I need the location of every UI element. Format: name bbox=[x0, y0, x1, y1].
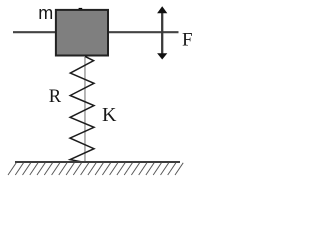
wire right line to F bbox=[108, 31, 179, 33]
force arrow F top head bbox=[157, 6, 167, 13]
svg-text:F: F bbox=[182, 29, 193, 50]
svg-text:m: m bbox=[38, 3, 53, 23]
force arrow F shaft bbox=[161, 12, 163, 54]
rod top notch bbox=[79, 8, 83, 10]
force arrow F bottom head bbox=[157, 53, 167, 59]
wire left support line bbox=[13, 31, 57, 33]
ground hatching bbox=[8, 163, 183, 175]
piston rod bbox=[84, 56, 86, 162]
svg-text:K: K bbox=[102, 104, 117, 126]
spring K bbox=[70, 56, 94, 162]
svg-text:R: R bbox=[49, 87, 62, 107]
ground line bbox=[15, 161, 180, 163]
mass block m bbox=[56, 10, 108, 56]
